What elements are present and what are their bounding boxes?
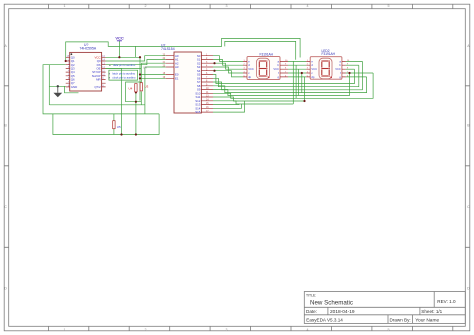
U1 pins right [102,57,106,87]
svg-text:latch pin to aurdino: latch pin to aurdino [112,71,135,75]
node U2 pin5 [213,70,215,72]
bottom ticks [48,326,452,331]
wire S8 bus3 [213,77,367,93]
top ticks [48,4,452,9]
svg-text:TITLE:: TITLE: [306,294,316,298]
wire LED1-LED2 row1 [288,60,306,62]
wire S13 [213,103,239,106]
svg-text:2018-04-19: 2018-04-19 [330,309,355,315]
VCC flag [115,36,124,41]
wire LED1-LED2 row3 [288,68,306,70]
LED1 digit 8 [259,61,266,76]
wire to A3 [145,67,166,114]
node E0 [139,73,141,75]
wire LED2 right row1 [346,60,363,62]
svg-text:data pin to aurdino: data pin to aurdino [113,63,136,67]
ground [53,93,62,97]
svg-text:5: 5 [388,328,390,332]
LED2 digit 8 [322,61,329,76]
LED2 pins right [342,61,346,77]
wire E1 [140,77,166,79]
wire A2 riser resistor U3 [140,63,142,105]
node U2 pin3 [213,62,215,64]
wire left drop 2 [48,65,50,105]
TITLE BLOCK [304,292,465,324]
svg-text:VCC: VCC [335,67,341,71]
ground net [53,85,62,97]
wire S15 [213,101,245,112]
svg-text:2: 2 [145,4,147,8]
node R bottom1 [135,91,137,93]
wire GND rail left [49,86,145,105]
wire S1 [213,60,243,66]
wire bottom resistor [113,114,115,135]
resistor R3 [140,83,149,91]
wire Q2 left loop [43,65,159,114]
svg-text:1: 1 [64,328,66,332]
wire S2 [213,63,243,69]
resistor R5 [113,121,121,129]
U1 pin numbers [67,56,70,88]
U2 pins right [201,56,213,112]
svg-text:clock pin to aurdino: clock pin to aurdino [112,75,136,79]
resistor R4 [129,84,138,92]
svg-text:REV: 1.0: REV: 1.0 [437,299,456,304]
U2 pin names right [195,54,201,114]
LED2 pin names [311,60,317,79]
wire S6 bus1 [213,65,359,87]
wire VCC inner arc [225,41,296,59]
svg-text:4: 4 [307,328,309,332]
node bottom rail a [120,133,122,135]
wire to A2 [106,63,166,68]
svg-text:EasyEDA V5.3.14: EasyEDA V5.3.14 [306,318,343,323]
LED1 pin numbers [244,60,289,78]
wire under U1 stub [65,86,79,93]
svg-text:U4: U4 [129,86,133,90]
U1 body [70,52,102,91]
wire flag box [109,70,138,80]
svg-text:Q7/2: Q7/2 [94,85,101,89]
node gnd [57,85,59,87]
U2 body [174,52,201,113]
svg-text:4: 4 [307,4,309,8]
wire S14 [213,104,242,108]
wire gnd stem dark [57,86,59,93]
wire mid drop4 [301,73,303,93]
svg-text:1: 1 [64,4,66,8]
wire S4 [213,71,243,77]
junction dots [65,56,351,135]
svg-text:2: 2 [145,328,147,332]
wire S12 bus7 [213,101,293,104]
svg-text:S15: S15 [195,110,201,114]
wire S3 [213,67,243,73]
svg-text:74HC595A: 74HC595A [80,47,97,51]
svg-text:3: 3 [226,328,228,332]
LED2 body [310,57,342,79]
wire resistor loop [126,82,142,102]
node led2 left [301,72,303,74]
wire S5 bus0 [213,69,355,83]
svg-text:Your Name: Your Name [415,318,439,324]
LED1 digit outline [257,58,270,79]
svg-text:D: D [4,287,7,291]
U1 pins left [66,57,70,87]
U2 pins left [166,56,174,79]
wire S7 bus2 [213,61,362,89]
wire S9 bus4 [213,73,350,96]
svg-text:Sheet: 1/1: Sheet: 1/1 [421,309,442,314]
svg-text:C: C [467,205,470,209]
svg-text:Drawn By:: Drawn By: [390,318,411,323]
svg-text:5: 5 [388,4,390,8]
svg-text:A3: A3 [175,65,179,69]
wire mid drop1 [292,61,294,104]
wire mid drop5 [304,77,306,101]
LED2 pin numbers [307,60,350,78]
svg-text:C: C [4,205,7,209]
wire LED2 right row3 [346,68,355,70]
svg-text:dp: dp [311,75,314,79]
LED2 digit outline [319,58,332,79]
left ticks [4,86,9,248]
svg-text:dp: dp [248,75,251,79]
wire VCC stem [118,41,120,58]
node Q1 left [65,60,67,62]
node E1 [139,77,141,79]
wire to A1 [106,60,166,65]
wire LED1-LED2 row2 [288,64,306,66]
svg-text:VCC: VCC [248,67,254,71]
svg-text:MR: MR [96,78,101,82]
wire U1 top VCC loop [66,38,300,61]
wire S11 bus6 [213,97,305,101]
node bottom rail b [135,133,137,135]
U1 pin names left [71,55,77,89]
svg-text:D: D [467,287,470,291]
wire S0 [213,56,243,62]
U2 pin numbers left [163,54,166,79]
right ticks [465,86,470,248]
net flags [109,63,136,79]
svg-text:UR: UR [143,66,147,70]
wire VCC rail [106,56,140,58]
node mid bus [303,100,305,102]
wire bottom rail [53,114,159,135]
svg-text:VCC: VCC [115,36,124,41]
svg-text:E1: E1 [175,76,179,80]
wire LED2 right row2 [346,64,359,66]
LED2 pins left [306,61,310,77]
wire LED2 right row4 long [346,72,373,74]
wire DS to A0 [106,56,166,61]
U2 pin names left [175,54,179,81]
LED1 pins right [280,61,288,77]
svg-text:U3: U3 [145,85,149,89]
LED1 body [247,57,280,80]
wire S10 bus5 [213,73,373,98]
wire mid drop2 [295,65,297,98]
node VCC-E column [139,56,141,58]
svg-text:F3191AH: F3191AH [322,52,336,56]
svg-text:74LS154: 74LS154 [161,47,175,51]
wire LED1-LED2 row5 [288,76,306,78]
wire LED2 right row5 [346,76,367,78]
svg-text:New Schematic: New Schematic [310,300,353,307]
wire E0 [140,74,166,76]
LED1 pins left [243,61,247,77]
U2 pin numbers right [206,54,209,112]
svg-text:GND: GND [71,85,77,89]
svg-text:VCC: VCC [311,67,317,71]
wire mid drop3 [298,69,300,95]
wire VCC drop to E pins [136,46,141,100]
svg-text:U5: U5 [117,125,121,129]
wire mid rail [106,68,122,134]
node led2 right [348,72,350,74]
node R bottom2 [135,101,137,103]
svg-text:3: 3 [226,4,228,8]
wire LED1-LED2 row4 [288,72,306,74]
node VCC stem [118,56,120,58]
svg-text:F3191AH: F3191AH [260,52,274,56]
svg-text:VCC: VCC [273,67,279,71]
svg-text:Date:: Date: [306,309,317,314]
U1 pin names right [92,55,101,89]
wire resistor bottom [135,92,137,134]
LED1 pin names [248,60,254,79]
